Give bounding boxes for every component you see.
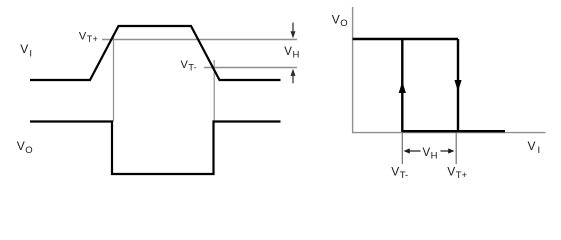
dimension line below V_T- xyxy=(401,133,403,164)
V_T- reference line xyxy=(204,67,297,69)
V_H down arrow to V_T+ line xyxy=(291,23,296,39)
vertical guide at V_T- crossing xyxy=(213,60,215,122)
down arrowhead on falling transition xyxy=(454,80,461,92)
input waveform V_I trapezoid pulse xyxy=(30,26,281,80)
V_H left dimension arrow xyxy=(404,148,421,153)
rising transition at V_T- xyxy=(401,39,403,132)
x axis V_I xyxy=(352,132,546,134)
vertical guide at V_T+ crossing xyxy=(113,34,115,122)
dimension line below V_T+ xyxy=(455,133,457,164)
y axis V_O xyxy=(352,7,354,133)
V_T+ reference line xyxy=(102,39,297,41)
V_H right dimension arrow xyxy=(441,148,455,153)
output waveform V_O inverted pulse xyxy=(30,122,281,175)
V_H up arrow to V_T- line xyxy=(291,69,296,84)
output-high segment xyxy=(353,38,458,40)
output-low segment xyxy=(402,130,505,132)
up arrowhead on rising transition xyxy=(399,82,406,94)
falling transition at V_T+ xyxy=(457,39,459,132)
